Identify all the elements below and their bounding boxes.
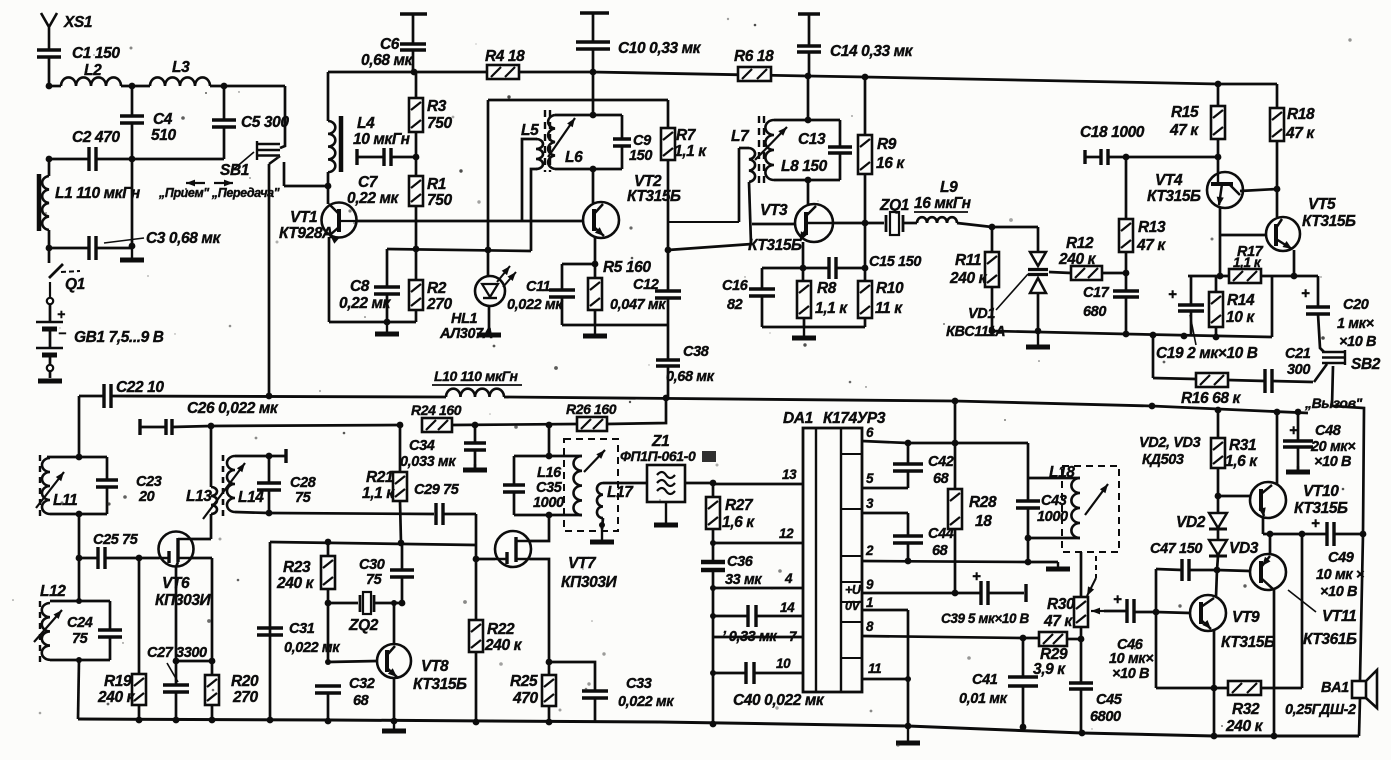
L7/L8 core — [759, 116, 764, 183]
svg-text:КТ928А: КТ928А — [279, 225, 333, 242]
svg-text:0V: 0V — [845, 599, 862, 613]
arrow L11 tuning — [36, 472, 64, 508]
arrow L18 tuning — [1085, 484, 1108, 515]
ground — [803, 327, 805, 338]
node — [325, 183, 332, 190]
svg-text:C21: C21 — [1285, 346, 1311, 362]
wire — [594, 310, 597, 325]
inductor L3 — [150, 77, 210, 86]
wire pin 4 — [713, 587, 803, 590]
svg-text:L7: L7 — [731, 128, 750, 145]
node — [800, 265, 807, 272]
svg-text:3,9 к: 3,9 к — [1033, 661, 1066, 678]
svg-text:C40 0,022 мк: C40 0,022 мк — [733, 692, 825, 709]
inductor L9 — [917, 217, 957, 223]
svg-text:47 к: 47 к — [1285, 125, 1315, 142]
node — [391, 718, 398, 725]
inductor L4 — [328, 121, 335, 172]
wire VT1 emitter — [328, 237, 331, 322]
wire — [48, 159, 51, 176]
ground — [1297, 466, 1299, 472]
wire L5 bottom — [531, 169, 537, 251]
arrow L5 tuning — [548, 118, 575, 157]
node — [905, 723, 912, 730]
node — [1211, 733, 1218, 740]
svg-text:КТ315Б: КТ315Б — [627, 188, 681, 205]
wire — [452, 424, 577, 425]
node — [1214, 567, 1221, 574]
capacitor C34 — [464, 443, 486, 450]
wire VT4 collector — [1240, 189, 1277, 191]
terminal C6 top — [400, 12, 427, 15]
ground — [393, 722, 395, 731]
node — [76, 511, 83, 518]
wire — [1228, 380, 1265, 381]
node — [1123, 154, 1130, 161]
capacitor C33 — [582, 691, 608, 698]
svg-text:C25 75: C25 75 — [93, 532, 139, 548]
node — [710, 585, 716, 591]
wire pin 8 — [862, 636, 1039, 638]
svg-text:L10 110 мкГн: L10 110 мкГн — [434, 368, 519, 384]
resistor R17 — [1229, 269, 1261, 283]
wire — [415, 72, 418, 98]
capacitor C40 0,022 мк — [713, 672, 746, 675]
wire — [211, 705, 214, 720]
wire SB1 to rail — [268, 164, 271, 396]
ground — [601, 527, 603, 542]
svg-text:0,22 мк: 0,22 мк — [339, 295, 392, 312]
svg-text:2: 2 — [865, 543, 874, 558]
svg-text:R10: R10 — [876, 280, 904, 297]
svg-text:R3: R3 — [427, 98, 447, 115]
node — [129, 156, 136, 163]
wire SB1 to VT1 — [284, 185, 328, 188]
wire — [235, 455, 269, 458]
node — [208, 423, 215, 430]
svg-text:9: 9 — [866, 577, 874, 592]
FET VT6 КП303И — [159, 532, 194, 567]
node — [905, 558, 912, 565]
svg-text:SB2: SB2 — [1351, 356, 1381, 373]
ground — [474, 464, 476, 470]
node — [590, 69, 597, 76]
svg-text:1,1 к: 1,1 к — [674, 143, 707, 160]
wire tank top — [47, 456, 107, 459]
capacitor C30 — [401, 545, 404, 570]
wire — [594, 698, 597, 722]
capacitor C45 — [1069, 683, 1093, 689]
node — [546, 659, 553, 666]
wire to C29 — [269, 513, 434, 514]
svg-text:R27: R27 — [725, 497, 754, 514]
varicap VD1 КВС111А — [1037, 227, 1040, 252]
svg-text:R15: R15 — [1171, 104, 1199, 121]
capacitor C15 — [829, 257, 836, 279]
resistor R19 — [132, 674, 146, 705]
svg-text:С12: С12 — [633, 277, 659, 293]
node — [266, 453, 273, 460]
wire — [210, 85, 285, 88]
capacitor C21 — [1265, 369, 1272, 393]
inductor L13 — [211, 487, 217, 514]
wire — [210, 426, 213, 487]
capacitor C27 — [163, 685, 189, 692]
capacitor C48 (polarized) — [1297, 412, 1300, 441]
LED HL1 АЛ307А — [475, 276, 505, 306]
inductor L10 — [446, 389, 504, 397]
L12 core — [39, 601, 41, 662]
svg-text:C30: C30 — [359, 557, 385, 573]
wire pin 5 — [862, 487, 908, 490]
svg-text:33 мк: 33 мк — [725, 572, 762, 588]
node — [136, 555, 143, 562]
svg-text:КД503: КД503 — [1142, 452, 1184, 468]
wire — [391, 156, 416, 159]
node — [805, 117, 812, 124]
svg-text:C2 470: C2 470 — [72, 129, 120, 146]
wire — [954, 443, 957, 489]
node — [173, 658, 180, 665]
transistor VT4 КТ315Б — [1207, 172, 1243, 208]
wire pin 3 — [862, 512, 908, 515]
node — [173, 717, 180, 724]
wire — [548, 706, 551, 722]
resistor R15 — [1211, 106, 1225, 139]
capacitor C23 — [96, 480, 118, 487]
svg-text:VT4: VT4 — [1155, 172, 1183, 189]
svg-text:R2: R2 — [427, 280, 447, 297]
L5/L6 core — [545, 110, 550, 172]
svg-text:C33: C33 — [626, 676, 652, 692]
wire — [211, 661, 214, 675]
capacitor C5 — [212, 120, 236, 127]
wire — [488, 306, 491, 333]
svg-text:10 мк ×: 10 мк × — [1316, 567, 1365, 583]
capacitor C11 — [561, 264, 564, 290]
wire — [1272, 381, 1313, 382]
node — [546, 512, 553, 519]
svg-text:КТ315Б: КТ315Б — [1302, 213, 1356, 230]
wire VT3 emitter — [802, 242, 805, 268]
capacitor C2 — [89, 147, 96, 171]
node — [546, 719, 553, 726]
svg-text:VT5: VT5 — [1308, 196, 1336, 213]
antenna XS1 — [41, 13, 57, 50]
wire VT7 gate — [476, 558, 495, 561]
label line SB1 — [234, 152, 254, 169]
inductor L14 — [227, 456, 235, 512]
node — [266, 510, 273, 517]
resistor R14 — [1209, 292, 1223, 327]
svg-text:КП303И: КП303И — [155, 592, 212, 609]
L1 core — [37, 174, 42, 231]
wire tank bottom — [1028, 537, 1080, 540]
label line C19 — [1190, 315, 1196, 345]
svg-text:+: + — [1168, 286, 1177, 303]
arrow L7 tuning — [755, 127, 787, 160]
ground — [386, 322, 388, 334]
inductor L18 — [1071, 478, 1080, 538]
svg-text:L9: L9 — [940, 179, 958, 196]
wire tank top — [50, 600, 110, 603]
wire VT6 drain — [191, 538, 211, 541]
capacitor C26 — [166, 419, 172, 435]
node — [391, 600, 397, 606]
wire — [1276, 141, 1279, 217]
svg-text:−: − — [58, 325, 66, 341]
wire — [96, 247, 132, 250]
wire tank bottom — [774, 179, 840, 182]
wire VT8 emitter — [393, 678, 396, 721]
terminal C39 — [1024, 584, 1027, 602]
inductor L6 — [548, 115, 555, 169]
wire bypass row — [387, 249, 531, 251]
wire — [607, 398, 666, 424]
capacitor C44 — [907, 513, 910, 536]
svg-text:XS1: XS1 — [63, 14, 92, 31]
wire pin 12 — [713, 542, 803, 545]
capacitor C34 — [474, 425, 477, 443]
inductor L12 — [42, 603, 50, 660]
wire tank top — [1028, 477, 1080, 480]
wire VT10 emitter — [1262, 517, 1265, 534]
capacitor C49 — [1327, 522, 1334, 546]
node — [46, 156, 53, 163]
resistor R22 — [469, 620, 483, 652]
capacitor C35 — [513, 456, 516, 485]
node — [710, 670, 716, 676]
svg-text:6: 6 — [866, 425, 874, 440]
inductor L11 — [42, 458, 50, 514]
svg-text:4: 4 — [784, 571, 793, 586]
resistor R8 — [797, 281, 811, 318]
capacitor C28 — [257, 483, 281, 490]
capacitor C20 — [1306, 307, 1330, 314]
wire — [1080, 627, 1083, 639]
wire — [957, 223, 992, 227]
svg-text:C42: C42 — [928, 454, 954, 470]
wire VT10 base — [1218, 495, 1250, 498]
resistor R21 — [393, 472, 407, 501]
wire — [1067, 638, 1081, 641]
ground — [131, 246, 133, 260]
svg-text:47 к: 47 к — [1043, 613, 1073, 630]
wire bus — [712, 483, 715, 497]
wire VT9 base — [1156, 612, 1190, 613]
svg-text:+: + — [57, 306, 65, 322]
wire — [1359, 698, 1360, 736]
node — [546, 422, 553, 429]
wire — [399, 425, 402, 472]
svg-text:C28: C28 — [290, 475, 317, 491]
svg-text:20: 20 — [138, 489, 155, 505]
wire — [1080, 689, 1083, 733]
svg-text:C22 10: C22 10 — [116, 379, 164, 396]
wire — [1334, 533, 1363, 536]
svg-text:R16 68 к: R16 68 к — [1181, 390, 1241, 407]
resistor R10 — [858, 281, 872, 318]
svg-text:R20: R20 — [231, 673, 259, 690]
wire — [621, 146, 624, 169]
capacitor C47 — [1156, 569, 1182, 570]
wire tank top — [555, 114, 622, 117]
node — [472, 422, 479, 429]
wire — [223, 86, 226, 120]
capacitor C39 — [981, 581, 988, 605]
node — [1123, 270, 1130, 277]
wire — [1217, 556, 1218, 570]
wire — [138, 558, 141, 674]
resistor R28 — [948, 489, 962, 529]
wire rail to L4 — [327, 72, 330, 121]
svg-text:×10 В: ×10 В — [1112, 666, 1149, 682]
wire — [49, 247, 89, 250]
wire bus — [712, 529, 715, 562]
wire VT5 emitter — [1293, 250, 1296, 276]
wire supply row — [211, 425, 400, 426]
wire — [105, 557, 159, 560]
wire — [223, 127, 226, 159]
wire VT3 base — [752, 223, 795, 226]
arrow L16 tuning — [584, 450, 605, 472]
svg-text:300: 300 — [1287, 362, 1310, 378]
node — [1181, 333, 1188, 340]
node — [325, 539, 332, 546]
capacitor C46 (polarized) — [1104, 610, 1127, 613]
wire — [49, 85, 61, 88]
svg-text:R28: R28 — [969, 494, 997, 511]
wire — [802, 268, 805, 281]
terminal C7 left — [355, 149, 358, 165]
wire — [280, 86, 285, 148]
ground — [594, 325, 596, 336]
resistor R4 18 — [487, 65, 519, 79]
svg-text:47 к: 47 к — [1136, 237, 1166, 254]
IC DA1 К174УР3 — [803, 428, 862, 692]
capacitor C10 — [576, 42, 610, 49]
wire — [1271, 276, 1274, 337]
wire — [954, 529, 957, 593]
svg-text:ZQ2: ZQ2 — [348, 617, 379, 634]
wire to VT11 base — [1217, 570, 1250, 571]
filter Z1 ФП1П-061 — [647, 465, 685, 502]
wire base node vertical — [1155, 569, 1158, 688]
svg-text:10 мк×: 10 мк× — [1109, 651, 1154, 667]
svg-text:1,1 к: 1,1 к — [362, 485, 395, 502]
svg-text:C48: C48 — [1315, 423, 1342, 439]
svg-text:R32: R32 — [1232, 701, 1260, 718]
svg-text:11: 11 — [868, 661, 881, 676]
resistor R2 — [409, 280, 423, 310]
L16/L17 screen box — [564, 439, 618, 531]
svg-text:C41: C41 — [972, 672, 998, 688]
wire — [327, 589, 330, 662]
capacitor C46 — [1127, 599, 1134, 623]
svg-text:+U: +U — [845, 583, 862, 597]
node — [473, 719, 480, 726]
wire — [1080, 552, 1083, 597]
capacitor C23 — [106, 457, 109, 480]
wire — [1102, 272, 1126, 275]
transistor VT9 КТ315Б — [1190, 595, 1226, 631]
capacitor C13 — [828, 147, 852, 153]
wire — [1080, 639, 1083, 683]
resistor R31 — [1211, 438, 1225, 468]
FET VT7 КП303И — [495, 531, 531, 567]
terminal L14 — [284, 449, 287, 463]
capacitor C44 — [893, 536, 923, 543]
wire — [48, 230, 51, 248]
svg-text:C29 75: C29 75 — [414, 482, 460, 498]
svg-text:C24: C24 — [67, 615, 93, 631]
svg-text:C23: C23 — [136, 474, 162, 490]
svg-text:0,047 мк: 0,047 мк — [610, 297, 666, 313]
wire VT5 base — [1220, 234, 1266, 237]
resistor R27 — [706, 497, 720, 529]
wire — [1027, 443, 1030, 478]
svg-text:240 к: 240 к — [97, 689, 136, 706]
wire row to VT7 gate — [270, 542, 476, 545]
svg-text:L4: L4 — [357, 115, 375, 132]
wire — [269, 542, 272, 720]
wire — [49, 158, 89, 161]
wire VT7 source — [530, 559, 549, 662]
wire VT11 emitter to R32 — [1301, 534, 1304, 688]
wire mid rail — [79, 395, 103, 398]
wire L4 to VT1 collector — [327, 172, 330, 204]
svg-text:L1 110 мкГн: L1 110 мкГн — [55, 185, 141, 202]
wire — [1022, 638, 1025, 677]
wire VT7 drain — [529, 515, 549, 541]
svg-text:L13: L13 — [186, 488, 212, 505]
svg-text:0,01 мк: 0,01 мк — [959, 691, 1008, 707]
svg-text:R4 18: R4 18 — [485, 48, 525, 65]
svg-text:+: + — [1289, 422, 1298, 439]
svg-text:L2: L2 — [84, 62, 102, 79]
svg-text:C16: C16 — [722, 278, 749, 294]
node — [952, 440, 959, 447]
wire emitter row — [1188, 275, 1318, 278]
resistor R13 — [1119, 219, 1133, 252]
capacitor C41 — [1008, 677, 1038, 686]
svg-text:КТ315Б: КТ315Б — [1294, 500, 1348, 517]
node — [952, 398, 959, 405]
wire tuning bus — [992, 331, 1272, 337]
node — [1274, 409, 1281, 416]
label line C27 — [167, 663, 178, 682]
svg-text:510: 510 — [151, 127, 176, 144]
svg-text:R22: R22 — [487, 621, 515, 638]
wire VT9 emitter — [1213, 630, 1216, 736]
wire — [667, 100, 670, 128]
svg-text:C1 150: C1 150 — [72, 45, 120, 62]
svg-text:20 мк×: 20 мк× — [1310, 439, 1356, 455]
wire tank top — [774, 119, 840, 122]
resistor R30 (potentiometer) — [1074, 597, 1088, 627]
wire VT1 base to VT2 base — [356, 220, 583, 223]
svg-text:C45: C45 — [1096, 692, 1123, 708]
svg-text:АЛ307А: АЛ307А — [439, 326, 493, 342]
svg-text:150: 150 — [629, 148, 652, 164]
transistor VT10 КТ315Б — [1250, 482, 1286, 518]
svg-text:×10 В: ×10 В — [1339, 334, 1376, 350]
capacitor C38 — [656, 360, 680, 366]
node — [1123, 331, 1130, 338]
svg-text:L5: L5 — [521, 122, 539, 139]
svg-text:1 мк×: 1 мк× — [1337, 316, 1375, 332]
wire — [1153, 378, 1196, 379]
